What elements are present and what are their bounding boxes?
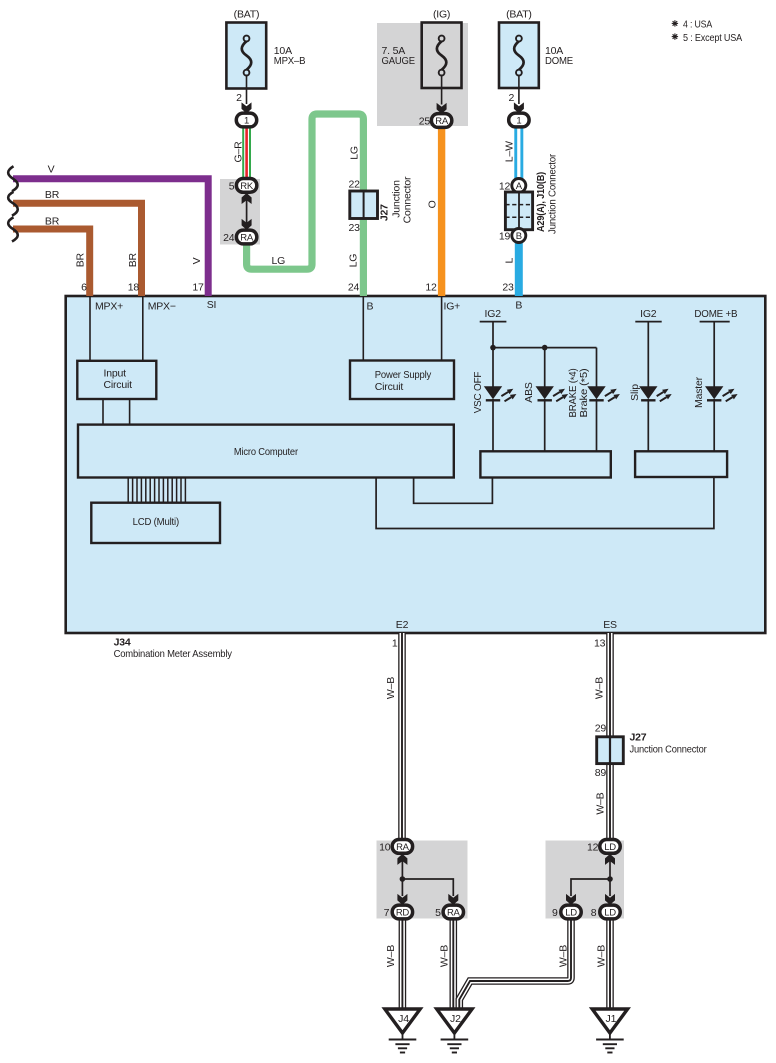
svg-text:Circuit: Circuit <box>375 381 404 393</box>
junction connector A29(A) J10(B) box <box>505 192 532 230</box>
svg-text:Micro Computer: Micro Computer <box>234 446 299 458</box>
svg-text:O: O <box>427 200 439 208</box>
svg-text:B: B <box>367 300 374 312</box>
svg-text:B: B <box>516 231 522 242</box>
arrow into connector 1 (DOME) <box>514 102 524 113</box>
note *5 Except USA <box>672 33 678 39</box>
svg-text:Power Supply: Power Supply <box>375 369 432 381</box>
ground J2 <box>437 1009 472 1053</box>
svg-text:G–R: G–R <box>232 141 244 163</box>
fuse MPX-B element <box>242 41 251 70</box>
hatch lines micro computer to LCD <box>128 478 185 503</box>
svg-text:A: A <box>516 181 523 192</box>
svg-text:IG2: IG2 <box>485 308 502 320</box>
gray background behind RA/RD/RA connector group <box>377 841 468 919</box>
svg-text:E2: E2 <box>396 619 409 631</box>
wire W-B from ES pin 13 to LD 12 <box>606 633 614 841</box>
wire W-B from E2 pin 1 to RA 10 <box>398 633 406 841</box>
LED ABS <box>536 386 569 401</box>
junction connector J27 (22/23) box <box>350 191 378 219</box>
connector ellipse 1 below fuse MPX-B <box>236 113 256 127</box>
connector ellipse LD pin 9 <box>561 905 581 919</box>
connector ellipse RA pin 5 <box>443 905 463 919</box>
fuse DOME element <box>514 41 523 70</box>
svg-text:DOME: DOME <box>545 55 573 67</box>
svg-text:IG2: IG2 <box>640 308 657 320</box>
svg-text:Slip: Slip <box>629 384 641 401</box>
note *4 USA <box>672 20 678 26</box>
wire W-B from LD 8 to ground J1 <box>606 917 614 1010</box>
svg-text:W–B: W–B <box>596 945 608 967</box>
svg-text:BR: BR <box>45 189 60 201</box>
input circuit box <box>77 361 156 399</box>
svg-text:7: 7 <box>384 907 390 919</box>
svg-text:19: 19 <box>499 230 511 242</box>
svg-text:9: 9 <box>552 907 558 919</box>
svg-text:V: V <box>191 257 203 264</box>
wire IG2 branch to ABS and BRAKE <box>493 347 597 349</box>
svg-text:29: 29 <box>595 723 607 735</box>
svg-text:DOME +B: DOME +B <box>694 308 737 320</box>
arrow down into RA 5 <box>448 894 458 905</box>
LED Master <box>705 386 738 401</box>
svg-text:W–B: W–B <box>438 945 450 967</box>
svg-text:10: 10 <box>379 841 391 853</box>
wire W-B from LD 9 to ground J2 <box>459 917 571 1010</box>
svg-text:W–B: W–B <box>385 677 397 699</box>
node IG2 rail (right group) <box>635 321 661 323</box>
svg-text:V: V <box>48 164 55 176</box>
svg-text:L: L <box>503 258 515 264</box>
break squiggle on wire BR upper <box>8 192 18 216</box>
wire BR (brown) from left to pin 18 <box>13 203 142 296</box>
LED BRAKE <box>587 386 620 401</box>
power supply circuit box <box>350 361 454 400</box>
svg-text:W–B: W–B <box>558 945 570 967</box>
connector circle A pin 12 <box>512 179 526 193</box>
pin lines inside main box to power supply circuit <box>362 296 364 361</box>
svg-text:Junction Connector: Junction Connector <box>630 743 708 755</box>
gray background behind RK/RA connector pair <box>220 179 260 245</box>
arrow into connector 1 <box>242 102 252 113</box>
svg-text:8: 8 <box>591 907 597 919</box>
svg-text:J27: J27 <box>630 731 647 743</box>
arrow down into LD 9 <box>566 894 576 905</box>
fuse GAUGE element <box>437 41 446 70</box>
svg-text:LG: LG <box>347 254 359 268</box>
svg-text:LD: LD <box>604 842 616 853</box>
pin lines inside main box to input circuit <box>89 296 91 361</box>
fuse 10A DOME body <box>499 23 539 89</box>
svg-text:W–B: W–B <box>595 792 607 814</box>
connector circle B pin 19 <box>512 229 526 243</box>
svg-text:ABS: ABS <box>523 382 535 403</box>
svg-text:13: 13 <box>594 638 606 650</box>
svg-text:12: 12 <box>499 180 511 192</box>
LCD (Multi) box <box>91 503 220 543</box>
svg-text:RA: RA <box>240 233 254 244</box>
svg-text:RK: RK <box>240 181 254 192</box>
svg-text:Master: Master <box>693 376 705 408</box>
svg-text:BR: BR <box>127 252 139 267</box>
svg-text:MPX+: MPX+ <box>95 300 123 312</box>
wire LG (light green) loop from RA to pin 24 through J27 <box>247 114 364 296</box>
svg-text:22: 22 <box>349 178 361 190</box>
svg-text:2: 2 <box>508 92 514 104</box>
svg-text:MPX–B: MPX–B <box>274 55 306 67</box>
gray background behind 7.5A GAUGE fuse <box>377 23 468 126</box>
arrow down into LD 8 <box>605 894 615 905</box>
svg-text:RD: RD <box>396 908 410 919</box>
wire BR (brown) from left to pin 6 <box>13 229 90 296</box>
LED Slip <box>639 386 672 401</box>
svg-text:(IG): (IG) <box>433 9 450 21</box>
svg-text:SI: SI <box>207 299 217 311</box>
wire L (blue) from B to pin 23 <box>515 242 523 297</box>
svg-text:MPX−: MPX− <box>148 300 176 312</box>
svg-text:LG: LG <box>349 146 361 160</box>
node DOME +B rail <box>700 321 730 323</box>
wire L-W (blue/white) fuse DOME to A <box>514 127 523 180</box>
svg-text:LCD (Multi): LCD (Multi) <box>133 516 179 528</box>
svg-text:LD: LD <box>604 908 616 919</box>
svg-text:Junction Connector: Junction Connector <box>547 153 559 234</box>
wire V (violet) from left to pin 17 <box>13 179 208 296</box>
svg-text:1: 1 <box>392 638 398 650</box>
svg-text:23: 23 <box>502 282 514 294</box>
svg-text:J4: J4 <box>398 1013 409 1025</box>
svg-text:A29(A), J10(B): A29(A), J10(B) <box>535 172 547 232</box>
LED VSC OFF <box>484 386 517 401</box>
svg-text:B: B <box>515 299 522 311</box>
svg-text:5 : Except USA: 5 : Except USA <box>683 32 742 44</box>
svg-text:ES: ES <box>603 619 617 631</box>
svg-text:4 : USA: 4 : USA <box>683 19 712 31</box>
svg-text:RA: RA <box>447 908 461 919</box>
svg-text:12: 12 <box>425 282 437 294</box>
svg-text:5: 5 <box>229 180 235 192</box>
svg-text:23: 23 <box>349 222 361 234</box>
svg-text:RA: RA <box>396 842 410 853</box>
connector ellipse LD pin 8 <box>600 905 620 919</box>
connector ellipse RA pin 24 <box>236 230 256 244</box>
combination meter J34 main box <box>66 296 766 633</box>
connector ellipse RA pin 25 <box>431 114 451 128</box>
svg-text:12: 12 <box>587 841 599 853</box>
svg-text:Connector: Connector <box>401 176 413 223</box>
svg-text:89: 89 <box>595 767 607 779</box>
svg-text:GAUGE: GAUGE <box>382 55 416 67</box>
junction connector J27 (29/89) box <box>597 737 624 764</box>
connector ellipse 1 below fuse DOME <box>509 113 529 127</box>
svg-text:W–B: W–B <box>385 945 397 967</box>
svg-text:L–W: L–W <box>504 141 516 162</box>
svg-text:(BAT): (BAT) <box>506 9 532 21</box>
svg-text:Combination Meter Assembly: Combination Meter Assembly <box>114 648 233 660</box>
svg-text:W–B: W–B <box>594 677 606 699</box>
ground J4 <box>385 1009 420 1053</box>
arrow down into RD 7 <box>397 894 407 905</box>
arrow up into LD 12 <box>609 858 611 879</box>
lines input circuit to micro computer <box>102 399 104 425</box>
svg-text:Input: Input <box>104 367 127 379</box>
wire micro computer to box 2 <box>376 478 714 529</box>
connector ellipse RA pin 10 <box>392 840 412 854</box>
wire W-B from RD 7 to ground J4 <box>399 917 407 1010</box>
ground J1 <box>592 1009 627 1053</box>
svg-text:LD: LD <box>565 908 577 919</box>
svg-text:6: 6 <box>81 282 87 294</box>
svg-text:(BAT): (BAT) <box>234 9 260 21</box>
arrow up into RA 10 <box>401 858 403 879</box>
double arrow between RK and RA <box>246 194 248 229</box>
fuse 7.5A GAUGE body <box>422 23 462 89</box>
svg-text:VSC OFF: VSC OFF <box>472 372 484 414</box>
break squiggle on wire BR lower <box>8 217 18 241</box>
svg-text:LG: LG <box>271 255 285 267</box>
junction dot and branch to LD 9 <box>607 876 613 882</box>
connector ellipse RK pin 5 <box>236 179 256 193</box>
svg-text:18: 18 <box>128 282 140 294</box>
wire G-R (green with red stripe) fuse MPX-B to RK <box>242 127 251 180</box>
gray background behind LD/LD/LD connector group <box>546 841 625 919</box>
svg-text:24: 24 <box>223 232 235 244</box>
indicator driver box 1 <box>480 451 610 477</box>
arrow into connector RA 25 <box>437 103 447 114</box>
junction dot and branch to RA 5 <box>400 876 406 882</box>
svg-text:J27: J27 <box>378 204 390 221</box>
svg-text:IG+: IG+ <box>444 300 461 312</box>
wires LEDs to indicator box 2 <box>647 399 649 451</box>
svg-text:25: 25 <box>419 115 431 127</box>
svg-text:2: 2 <box>236 92 242 104</box>
svg-text:Brake (*5): Brake (*5) <box>578 369 591 418</box>
svg-text:17: 17 <box>192 282 204 294</box>
svg-text:24: 24 <box>348 282 360 294</box>
wires LEDs to indicator box 1 <box>492 399 494 451</box>
wire O (orange) from RA 25 to pin 12 <box>438 127 445 297</box>
junction node dots <box>490 345 496 351</box>
connector ellipse RD pin 7 <box>392 905 412 919</box>
wire W-B from RA 5 to ground J2 <box>449 917 457 1010</box>
svg-text:RA: RA <box>435 116 449 127</box>
fuse 10A MPX-B body <box>226 23 266 89</box>
connector ellipse LD pin 12 <box>600 840 620 854</box>
svg-text:Circuit: Circuit <box>104 379 133 391</box>
indicator driver box 2 <box>635 451 727 477</box>
svg-text:J1: J1 <box>606 1013 617 1025</box>
node IG2 rail (left group) <box>480 321 507 323</box>
svg-text:1: 1 <box>516 116 521 127</box>
micro computer box <box>78 425 454 478</box>
svg-text:1: 1 <box>244 116 249 127</box>
svg-text:BR: BR <box>75 252 87 267</box>
wire micro computer to box 1 <box>414 478 493 504</box>
break squiggle on wire V <box>8 166 18 191</box>
svg-text:BR: BR <box>45 216 60 228</box>
svg-text:5: 5 <box>435 907 441 919</box>
svg-text:J2: J2 <box>450 1013 461 1025</box>
